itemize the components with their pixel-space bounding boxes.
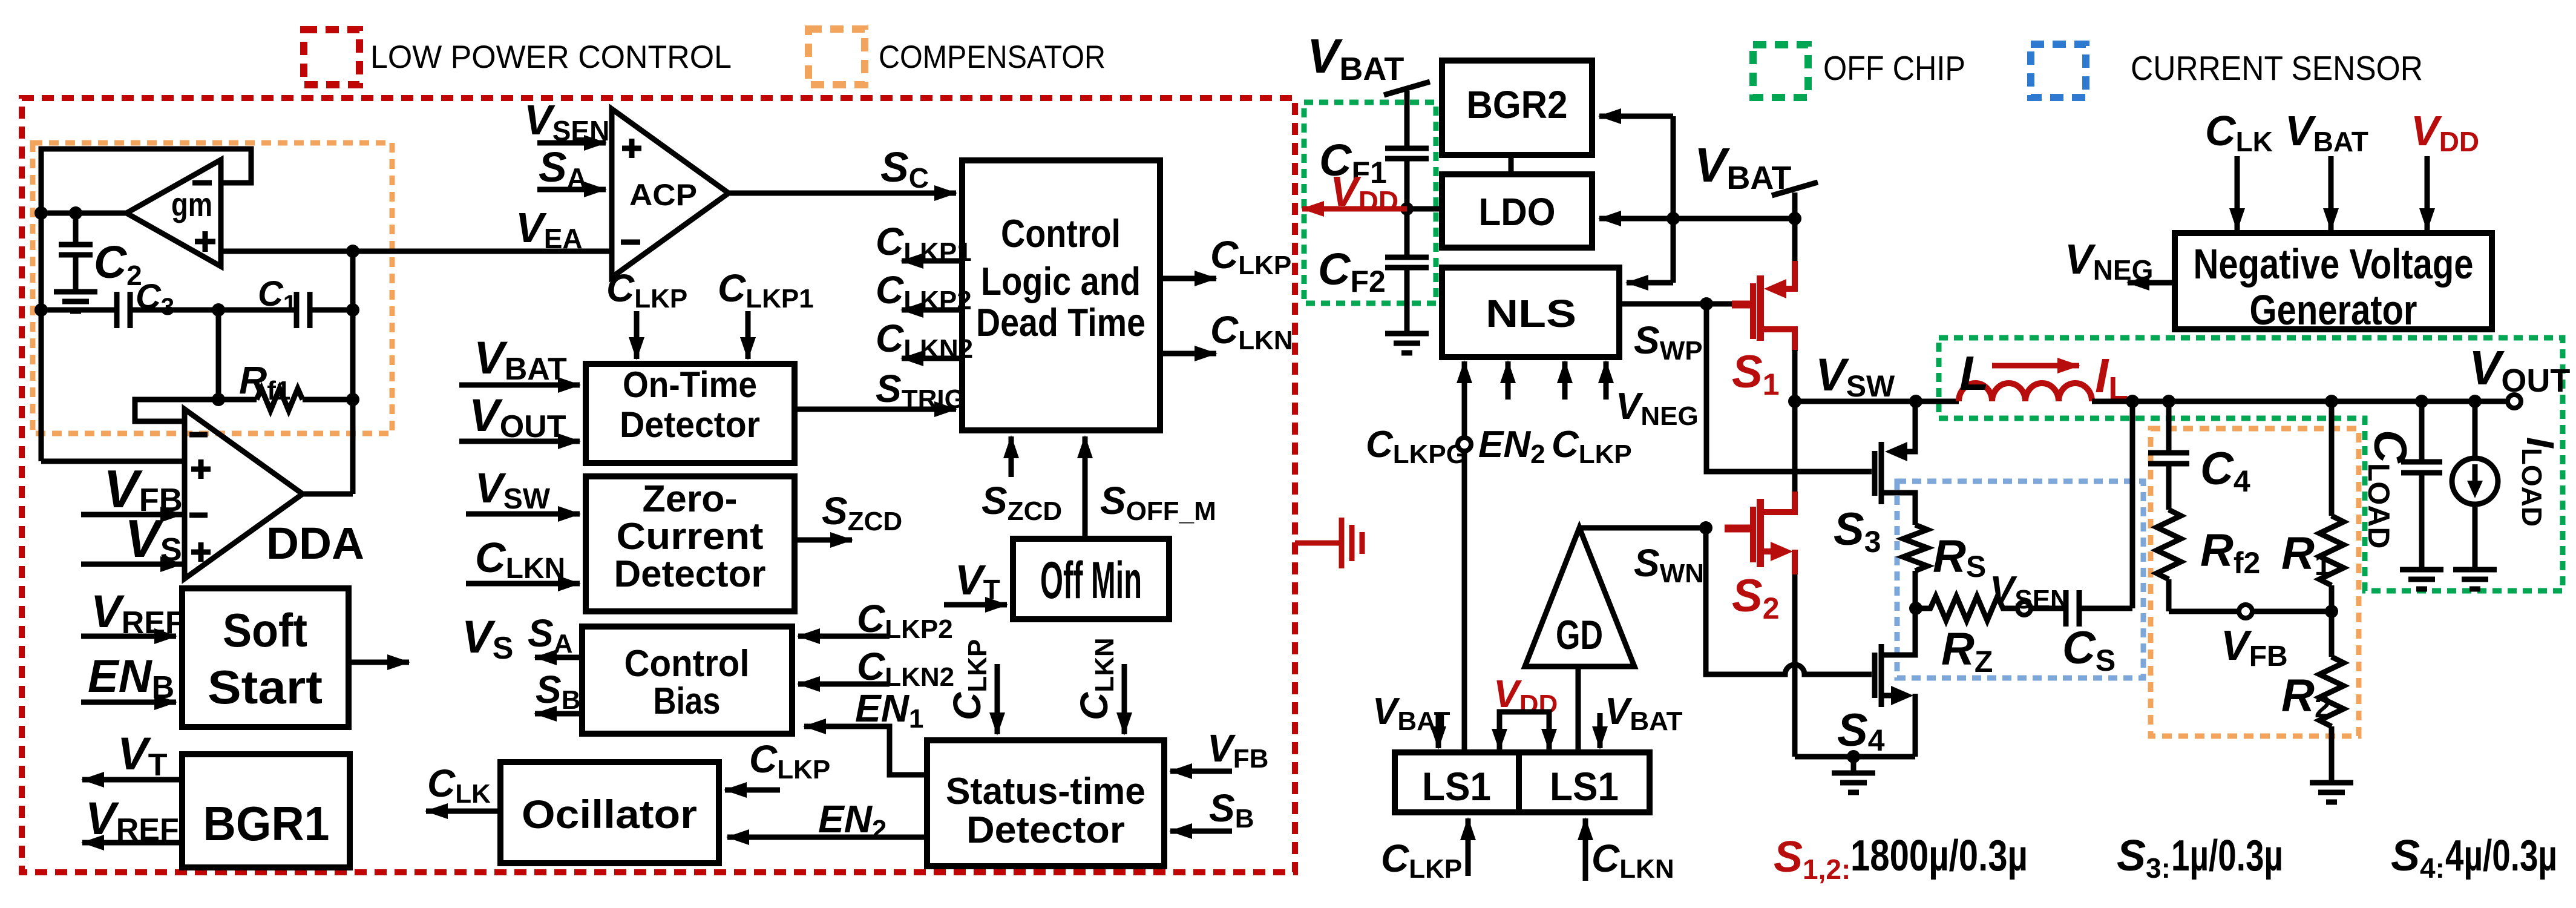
svg-text:1800µ/0.3µ: 1800µ/0.3µ: [1850, 832, 2028, 880]
op-amp DDA: [185, 409, 303, 579]
svg-text:OFF CHIP: OFF CHIP: [1823, 49, 1965, 88]
block LS1 right: [1519, 752, 1650, 812]
node gm output: [34, 206, 48, 220]
svg-text:CLKP: CLKP: [1381, 837, 1462, 884]
node C3 left: [34, 303, 48, 317]
wire VEA to ACP: [221, 249, 612, 254]
wire CLKP into status: [995, 664, 1000, 734]
op-amp ACP: [612, 109, 729, 277]
wire into BGR2: [1599, 114, 1673, 119]
wire STRIG: [795, 407, 956, 412]
wire gm output: [41, 211, 126, 216]
node C1 right: [346, 303, 359, 317]
svg-text:CLKN2: CLKN2: [857, 645, 954, 692]
svg-text:SWN: SWN: [1634, 541, 1704, 588]
svg-text:SB: SB: [536, 668, 580, 715]
resistor R1: [2319, 401, 2344, 611]
svg-text:VFB: VFB: [1207, 726, 1268, 774]
capacitor C2: [59, 213, 93, 292]
legend: current sensor swatch: [2031, 44, 2086, 97]
wire VBAT distribution vertical: [1671, 116, 1676, 283]
svg-text:L: L: [1959, 346, 1989, 400]
VBAT tap above S1: [1772, 182, 1818, 262]
node VDD: [1400, 202, 1414, 215]
node Rf1 left: [212, 393, 225, 406]
off chip region box L and output: [1939, 338, 2563, 591]
wire CLKP2 in: [798, 634, 890, 639]
svg-text:Zero-: Zero-: [643, 478, 738, 520]
node VSW at S3: [1909, 395, 1922, 408]
svg-text:CLKPG: CLKPG: [1366, 424, 1467, 469]
svg-text:Detector: Detector: [966, 809, 1125, 851]
capacitor CS: [2031, 590, 2132, 627]
wire VFB input: [81, 512, 182, 518]
block LDO: [1442, 174, 1592, 248]
wire CS to VOUT rail: [2130, 401, 2135, 608]
svg-text:Negative Voltage: Negative Voltage: [2194, 240, 2474, 288]
svg-text:Soft: Soft: [223, 604, 307, 657]
svg-text:VSW: VSW: [475, 464, 551, 515]
wire SB out: [535, 711, 582, 717]
wire NLS inputs stubs: [1464, 361, 1606, 400]
wire CLKP osc: [725, 788, 780, 793]
off chip region box CF1 CF2: [1304, 102, 1436, 303]
svg-text:SB: SB: [1209, 786, 1254, 834]
legend: low power control swatch: [304, 30, 359, 85]
svg-text:C1: C1: [258, 274, 297, 317]
node SWP: [1700, 297, 1713, 311]
block NLS: [1442, 268, 1619, 357]
block BGR2: [1442, 61, 1592, 155]
node RS bottom: [1909, 602, 1922, 615]
svg-text:Control: Control: [1001, 211, 1121, 255]
ground under CF2: [1385, 334, 1429, 353]
node divider: [2325, 605, 2338, 618]
svg-text:CF2: CF2: [1318, 244, 1386, 298]
svg-text:Rf1: Rf1: [239, 358, 290, 406]
svg-text:Bias: Bias: [654, 680, 721, 722]
block zero-current detector: [586, 476, 795, 611]
svg-text:CLOAD: CLOAD: [2362, 430, 2416, 549]
svg-text:Dead Time: Dead Time: [976, 300, 1145, 344]
svg-text:VBAT: VBAT: [1694, 138, 1791, 196]
wire DDA output: [303, 492, 353, 497]
svg-text:SC: SC: [880, 143, 929, 194]
wire S1 drain to VSW: [1792, 350, 1798, 401]
wire CLKP1 out: [902, 258, 962, 264]
svg-text:VSW: VSW: [1815, 349, 1895, 403]
node rail ILOAD: [2468, 395, 2482, 408]
compensator region box: [33, 143, 392, 433]
svg-text:VNEG: VNEG: [1616, 386, 1699, 431]
svg-text:EN2: EN2: [1478, 424, 1545, 469]
wire LDO left: [1407, 206, 1442, 212]
svg-text:Detector: Detector: [620, 404, 760, 445]
compensator region box right: [2151, 429, 2359, 736]
svg-text:LOW POWER CONTROL: LOW POWER CONTROL: [370, 39, 732, 75]
wire SOFFM: [1083, 436, 1088, 539]
wire VSW zcd: [466, 512, 580, 517]
wire CLKN into status: [1122, 664, 1127, 734]
wire VOUT rail: [2092, 399, 2508, 404]
svg-text:VS: VS: [462, 611, 513, 666]
ground red chip: [1295, 518, 1362, 568]
svg-text:ILOAD: ILOAD: [2516, 437, 2562, 527]
capacitor CF1: [1385, 148, 1429, 257]
svg-text:IL: IL: [2095, 349, 2128, 407]
svg-text:BGR1: BGR1: [203, 797, 330, 850]
transistor S2: [1725, 492, 1795, 574]
svg-text:SOFF_M: SOFF_M: [1100, 479, 1216, 526]
svg-text:VOUT: VOUT: [2469, 341, 2570, 399]
wire CLK into nvg: [2235, 156, 2240, 230]
wire CLK out: [426, 809, 500, 814]
svg-text:VBAT: VBAT: [1372, 691, 1450, 736]
svg-text:CS: CS: [2062, 622, 2116, 677]
wire CLKN2 in: [798, 682, 890, 687]
svg-text:S3: S3: [1834, 504, 1881, 559]
wire VT out: [82, 777, 182, 783]
wire DDA plus input: [41, 459, 185, 464]
node rail CS: [2126, 395, 2139, 408]
svg-text:S2: S2: [1732, 570, 1780, 625]
wire VNEG out: [2128, 280, 2175, 286]
svg-text:EN1: EN1: [855, 686, 923, 734]
wire gm feedback: [41, 149, 251, 213]
ground under C2: [54, 292, 97, 311]
svg-text:gm: gm: [171, 185, 212, 223]
node VFB terminal: [2239, 605, 2252, 618]
svg-text:Rf2: Rf2: [2200, 525, 2260, 580]
node Rf1 right: [346, 393, 359, 406]
svg-text:CURRENT SENSOR: CURRENT SENSOR: [2131, 49, 2423, 88]
wire VOUT ontime: [459, 439, 580, 444]
block control bias: [582, 627, 792, 734]
wire VREF soft start: [81, 634, 176, 639]
svg-text:VT: VT: [955, 556, 1000, 605]
wire VREF out: [82, 840, 182, 846]
svg-text:S1: S1: [1732, 346, 1780, 401]
low power control region box: [22, 98, 1295, 872]
svg-text:CLKP: CLKP: [1552, 424, 1632, 469]
svg-text:LDO: LDO: [1479, 190, 1556, 234]
wire VBAT to S1: [1673, 216, 1795, 222]
svg-text:Start: Start: [208, 660, 323, 714]
node C3-C1: [212, 303, 225, 317]
svg-text:Detector: Detector: [614, 553, 766, 595]
svg-text:BGR2: BGR2: [1467, 83, 1568, 127]
svg-text:CLKN: CLKN: [1210, 308, 1293, 355]
wire VFB into status: [1170, 769, 1232, 774]
wire CLKP down arrow: [634, 311, 640, 359]
wire CLKN into LS1: [1583, 818, 1588, 881]
svg-text:COMPENSATOR: COMPENSATOR: [879, 39, 1106, 75]
svg-text:C3: C3: [136, 277, 174, 320]
node SWN: [1699, 521, 1712, 535]
svg-text:CLKP2: CLKP2: [876, 268, 972, 315]
svg-text:Current: Current: [617, 516, 764, 558]
current sensor region box: [1897, 481, 2143, 678]
svg-text:GD: GD: [1556, 612, 1603, 658]
svg-text:STRIG: STRIG: [876, 367, 965, 414]
svg-text:VDD: VDD: [2411, 107, 2479, 157]
wire EN1: [804, 726, 927, 775]
ground under CLOAD: [2400, 570, 2443, 589]
node CLKPG circle: [1458, 438, 1471, 451]
resistor RS: [1903, 525, 1927, 608]
wire CLKP1 down arrow: [746, 311, 751, 359]
svg-text:VSEN: VSEN: [524, 96, 609, 146]
transistor S3: [1875, 401, 1915, 525]
wire CLKP2 out: [902, 308, 962, 313]
node rail CLOAD: [2415, 395, 2428, 408]
resistor RZ: [1916, 596, 2017, 620]
block control logic and dead time: [962, 160, 1160, 430]
wire SC output: [729, 191, 956, 196]
node rail C4: [2162, 395, 2175, 408]
legend: off chip swatch: [1753, 45, 1808, 97]
wire into NLS: [1627, 280, 1673, 286]
svg-text:VEA: VEA: [516, 204, 583, 254]
wire GD input from LS1: [1576, 666, 1581, 752]
wire S2 drain: [1792, 401, 1798, 492]
wire SA out: [535, 655, 582, 660]
svg-text:VBAT: VBAT: [474, 332, 567, 387]
wire SZCD stub: [1009, 436, 1014, 477]
svg-text:EN2: EN2: [818, 797, 887, 844]
block on-time detector: [586, 364, 795, 463]
svg-text:VREF: VREF: [91, 586, 185, 640]
svg-text:RZ: RZ: [1941, 623, 1993, 679]
wire SWN to S4 gate with hop: [1706, 528, 1872, 674]
svg-text:CLKP: CLKP: [1210, 233, 1291, 280]
node VEA: [346, 245, 359, 258]
svg-text:VREF: VREF: [85, 793, 179, 847]
current source ILOAD: [2452, 401, 2498, 570]
ground S4: [1832, 773, 1875, 792]
svg-text:S4: S4: [1837, 705, 1885, 757]
svg-text:CLKN: CLKN: [1072, 637, 1119, 720]
wire VFB to divider: [2252, 609, 2332, 614]
wire VDD red arrow: [1302, 206, 1407, 212]
op-amp GD: [1525, 528, 1634, 666]
block negative voltage generator: [2175, 233, 2492, 334]
svg-text:S1,2:: S1,2:: [1774, 833, 1850, 885]
svg-text:VFB: VFB: [2221, 622, 2288, 673]
legend: compensator swatch: [808, 29, 865, 85]
node VSEN terminal: [2017, 602, 2031, 615]
block LS1 left: [1395, 752, 1519, 812]
wire VT input: [944, 602, 1007, 608]
wire Rf2 to VFB: [2169, 609, 2239, 614]
block oscillator: [500, 762, 719, 863]
svg-text:S4:: S4:: [2391, 832, 2445, 884]
wire S2 source down: [1792, 574, 1798, 757]
resistor Rf1: [218, 389, 353, 410]
wire VBAT ls1 left: [1436, 713, 1441, 748]
svg-text:SZCD: SZCD: [982, 479, 1062, 526]
wire CLKN out right: [1160, 351, 1216, 357]
wire EN2: [727, 835, 927, 840]
node rail R1: [2325, 395, 2338, 408]
svg-text:CLK: CLK: [427, 762, 491, 809]
wire VS input: [81, 562, 182, 567]
node VOUT terminal: [2508, 395, 2521, 408]
capacitor CF2: [1385, 257, 1429, 334]
resistor Rf2: [2157, 510, 2181, 611]
svg-text:VBAT: VBAT: [1605, 691, 1683, 736]
capacitor C3: [41, 292, 218, 328]
svg-text:SA: SA: [539, 143, 587, 194]
svg-text:VOUT: VOUT: [469, 390, 566, 444]
VBAT tap left: [1384, 82, 1430, 148]
svg-text:CLKN: CLKN: [475, 534, 565, 585]
svg-text:CLK: CLK: [2205, 107, 2273, 157]
svg-text:CLKN: CLKN: [1591, 837, 1674, 884]
node source join: [1847, 750, 1860, 763]
wire left rail: [39, 213, 44, 461]
transistor S4: [1875, 608, 1915, 757]
capacitor CLOAD: [2401, 401, 2442, 570]
wire to ground: [1851, 757, 1857, 773]
svg-text:4µ/0.3µ: 4µ/0.3µ: [2445, 832, 2557, 880]
svg-text:CLKN2: CLKN2: [876, 317, 973, 364]
wire IL arrow red: [1992, 363, 2079, 369]
op-amp gm: [126, 160, 221, 266]
svg-text:ACP: ACP: [629, 178, 697, 212]
wire SWP to S3 gate: [1706, 304, 1872, 472]
ground under R2: [2310, 783, 2353, 802]
wire into LDO: [1599, 216, 1673, 222]
svg-text:NLS: NLS: [1486, 292, 1576, 335]
node at S1 branch: [1788, 212, 1801, 225]
svg-text:LS1: LS1: [1550, 764, 1619, 809]
wire SWN: [1579, 525, 1706, 531]
svg-text:Control: Control: [624, 643, 750, 685]
inductor L: [1959, 383, 2092, 401]
wire CLKPG long: [1462, 451, 1467, 752]
wire VSW rail: [1795, 399, 1959, 404]
wire SWP: [1619, 301, 1732, 307]
wire VBAT into nvg: [2329, 156, 2334, 230]
svg-text:VBAT: VBAT: [1307, 29, 1404, 87]
svg-text:Ocillator: Ocillator: [522, 792, 697, 837]
wire BGR2 LDO link: [1509, 155, 1514, 174]
wire C3C1 to Rf1: [216, 310, 221, 400]
ground under ILOAD: [2453, 570, 2497, 589]
wire CLKP into LS1: [1466, 818, 1471, 876]
svg-text:C4: C4: [2200, 443, 2250, 498]
wire CLKPG stub: [1462, 396, 1467, 438]
svg-text:CLKP1: CLKP1: [718, 266, 814, 314]
node VBAT dist: [1667, 212, 1680, 225]
wire CLKN2 out: [902, 356, 962, 361]
wire ENB: [81, 700, 176, 705]
svg-text:On-Time: On-Time: [623, 364, 757, 405]
svg-text:VNEG: VNEG: [2065, 235, 2153, 286]
wire Rf1 to DDA minus: [135, 400, 218, 421]
wire SZCD out: [795, 538, 852, 543]
node VSW: [1788, 395, 1801, 408]
svg-text:SWP: SWP: [1634, 318, 1703, 366]
capacitor C1: [218, 292, 353, 328]
svg-text:CLKP2: CLKP2: [857, 597, 953, 644]
wire VBAT ontime: [459, 383, 580, 388]
svg-text:DDA: DDA: [266, 518, 364, 568]
svg-text:1µ/0.3µ: 1µ/0.3µ: [2171, 832, 2283, 880]
wire SA input: [537, 187, 606, 192]
svg-text:Off Min: Off Min: [1040, 551, 1142, 610]
resistor R2: [2319, 611, 2344, 783]
wire CLKP out right: [1160, 276, 1216, 281]
wire SB into status: [1170, 829, 1232, 834]
svg-text:SZCD: SZCD: [822, 489, 902, 536]
svg-text:VT: VT: [117, 728, 168, 783]
transistor S1: [1732, 261, 1795, 351]
svg-text:CLKP: CLKP: [606, 266, 687, 314]
svg-text:CLKP: CLKP: [749, 737, 830, 785]
block BGR1: [182, 754, 350, 867]
wire VEA vertical: [350, 251, 356, 494]
block off min: [1013, 539, 1169, 619]
block status-time detector: [927, 740, 1164, 866]
wire VDD staple: [1492, 712, 1557, 752]
block soft start: [182, 588, 349, 727]
wire VSEN input: [537, 140, 606, 146]
wire CLKN zcd: [466, 581, 580, 587]
svg-text:LS1: LS1: [1422, 764, 1491, 809]
wire VBAT ls1 right: [1598, 713, 1603, 748]
wire VS out: [349, 660, 409, 665]
svg-text:RS: RS: [1933, 531, 1986, 584]
svg-text:VBAT: VBAT: [2285, 107, 2368, 157]
wire VDD into nvg: [2425, 156, 2430, 230]
svg-text:C2: C2: [94, 237, 142, 291]
wire S2 S4 source join: [1795, 754, 1915, 760]
capacitor C4: [2148, 401, 2189, 510]
svg-text:Generator: Generator: [2250, 286, 2417, 334]
svg-text:S3:: S3:: [2117, 832, 2171, 884]
svg-text:CLKP1: CLKP1: [876, 220, 972, 267]
svg-text:Status-time: Status-time: [946, 771, 1145, 812]
svg-text:ENB: ENB: [88, 651, 174, 705]
svg-text:Logic and: Logic and: [981, 259, 1141, 303]
svg-text:SA: SA: [528, 611, 572, 659]
